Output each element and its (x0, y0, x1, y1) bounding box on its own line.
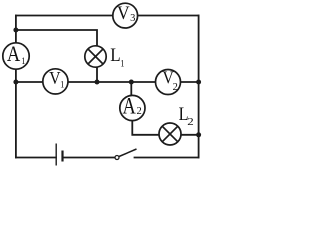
svg-text:2: 2 (136, 106, 141, 117)
label L2 (179, 103, 194, 127)
wire bottom left (16, 157, 56, 159)
wire top (16, 15, 199, 17)
svg-text:L: L (110, 44, 120, 65)
battery cell (56, 144, 62, 166)
svg-text:1: 1 (21, 56, 25, 67)
wire L1 to middle node (96, 68, 98, 83)
svg-text:1: 1 (120, 58, 124, 69)
svg-text:V: V (49, 68, 60, 88)
voltmeter V1 (43, 68, 68, 94)
svg-text:A: A (122, 92, 135, 119)
ammeter A2 (120, 92, 145, 120)
label L1 (110, 44, 124, 68)
wire bottom middle (63, 157, 116, 159)
wire left (15, 16, 17, 158)
ammeter A1 (3, 42, 29, 69)
node junction right middle (196, 80, 201, 85)
node junction left upper (13, 28, 18, 33)
node junction right L2 (196, 132, 201, 137)
wire right (198, 16, 200, 158)
wire middle (16, 81, 199, 83)
svg-text:V: V (117, 2, 130, 23)
svg-text:1: 1 (60, 79, 64, 90)
switch S (115, 149, 137, 160)
lamp L2 (159, 123, 181, 145)
wire bottom right (135, 157, 199, 159)
voltmeter V3 (113, 2, 138, 28)
voltmeter V2 (156, 68, 181, 95)
wire L2 to right rail (181, 134, 199, 136)
svg-text:2: 2 (173, 82, 178, 93)
node junction left middle (13, 80, 18, 85)
wire A2 branch down (130, 82, 132, 97)
node junction A2 top (129, 80, 134, 85)
node junction L1 bottom (95, 80, 100, 85)
svg-text:2: 2 (187, 116, 194, 127)
svg-text:A: A (7, 42, 20, 66)
wire A2 to L2 elbow (132, 120, 159, 135)
wire L1 feed horizontal (16, 30, 97, 46)
svg-text:3: 3 (130, 13, 135, 24)
lamp L1 (85, 46, 106, 67)
